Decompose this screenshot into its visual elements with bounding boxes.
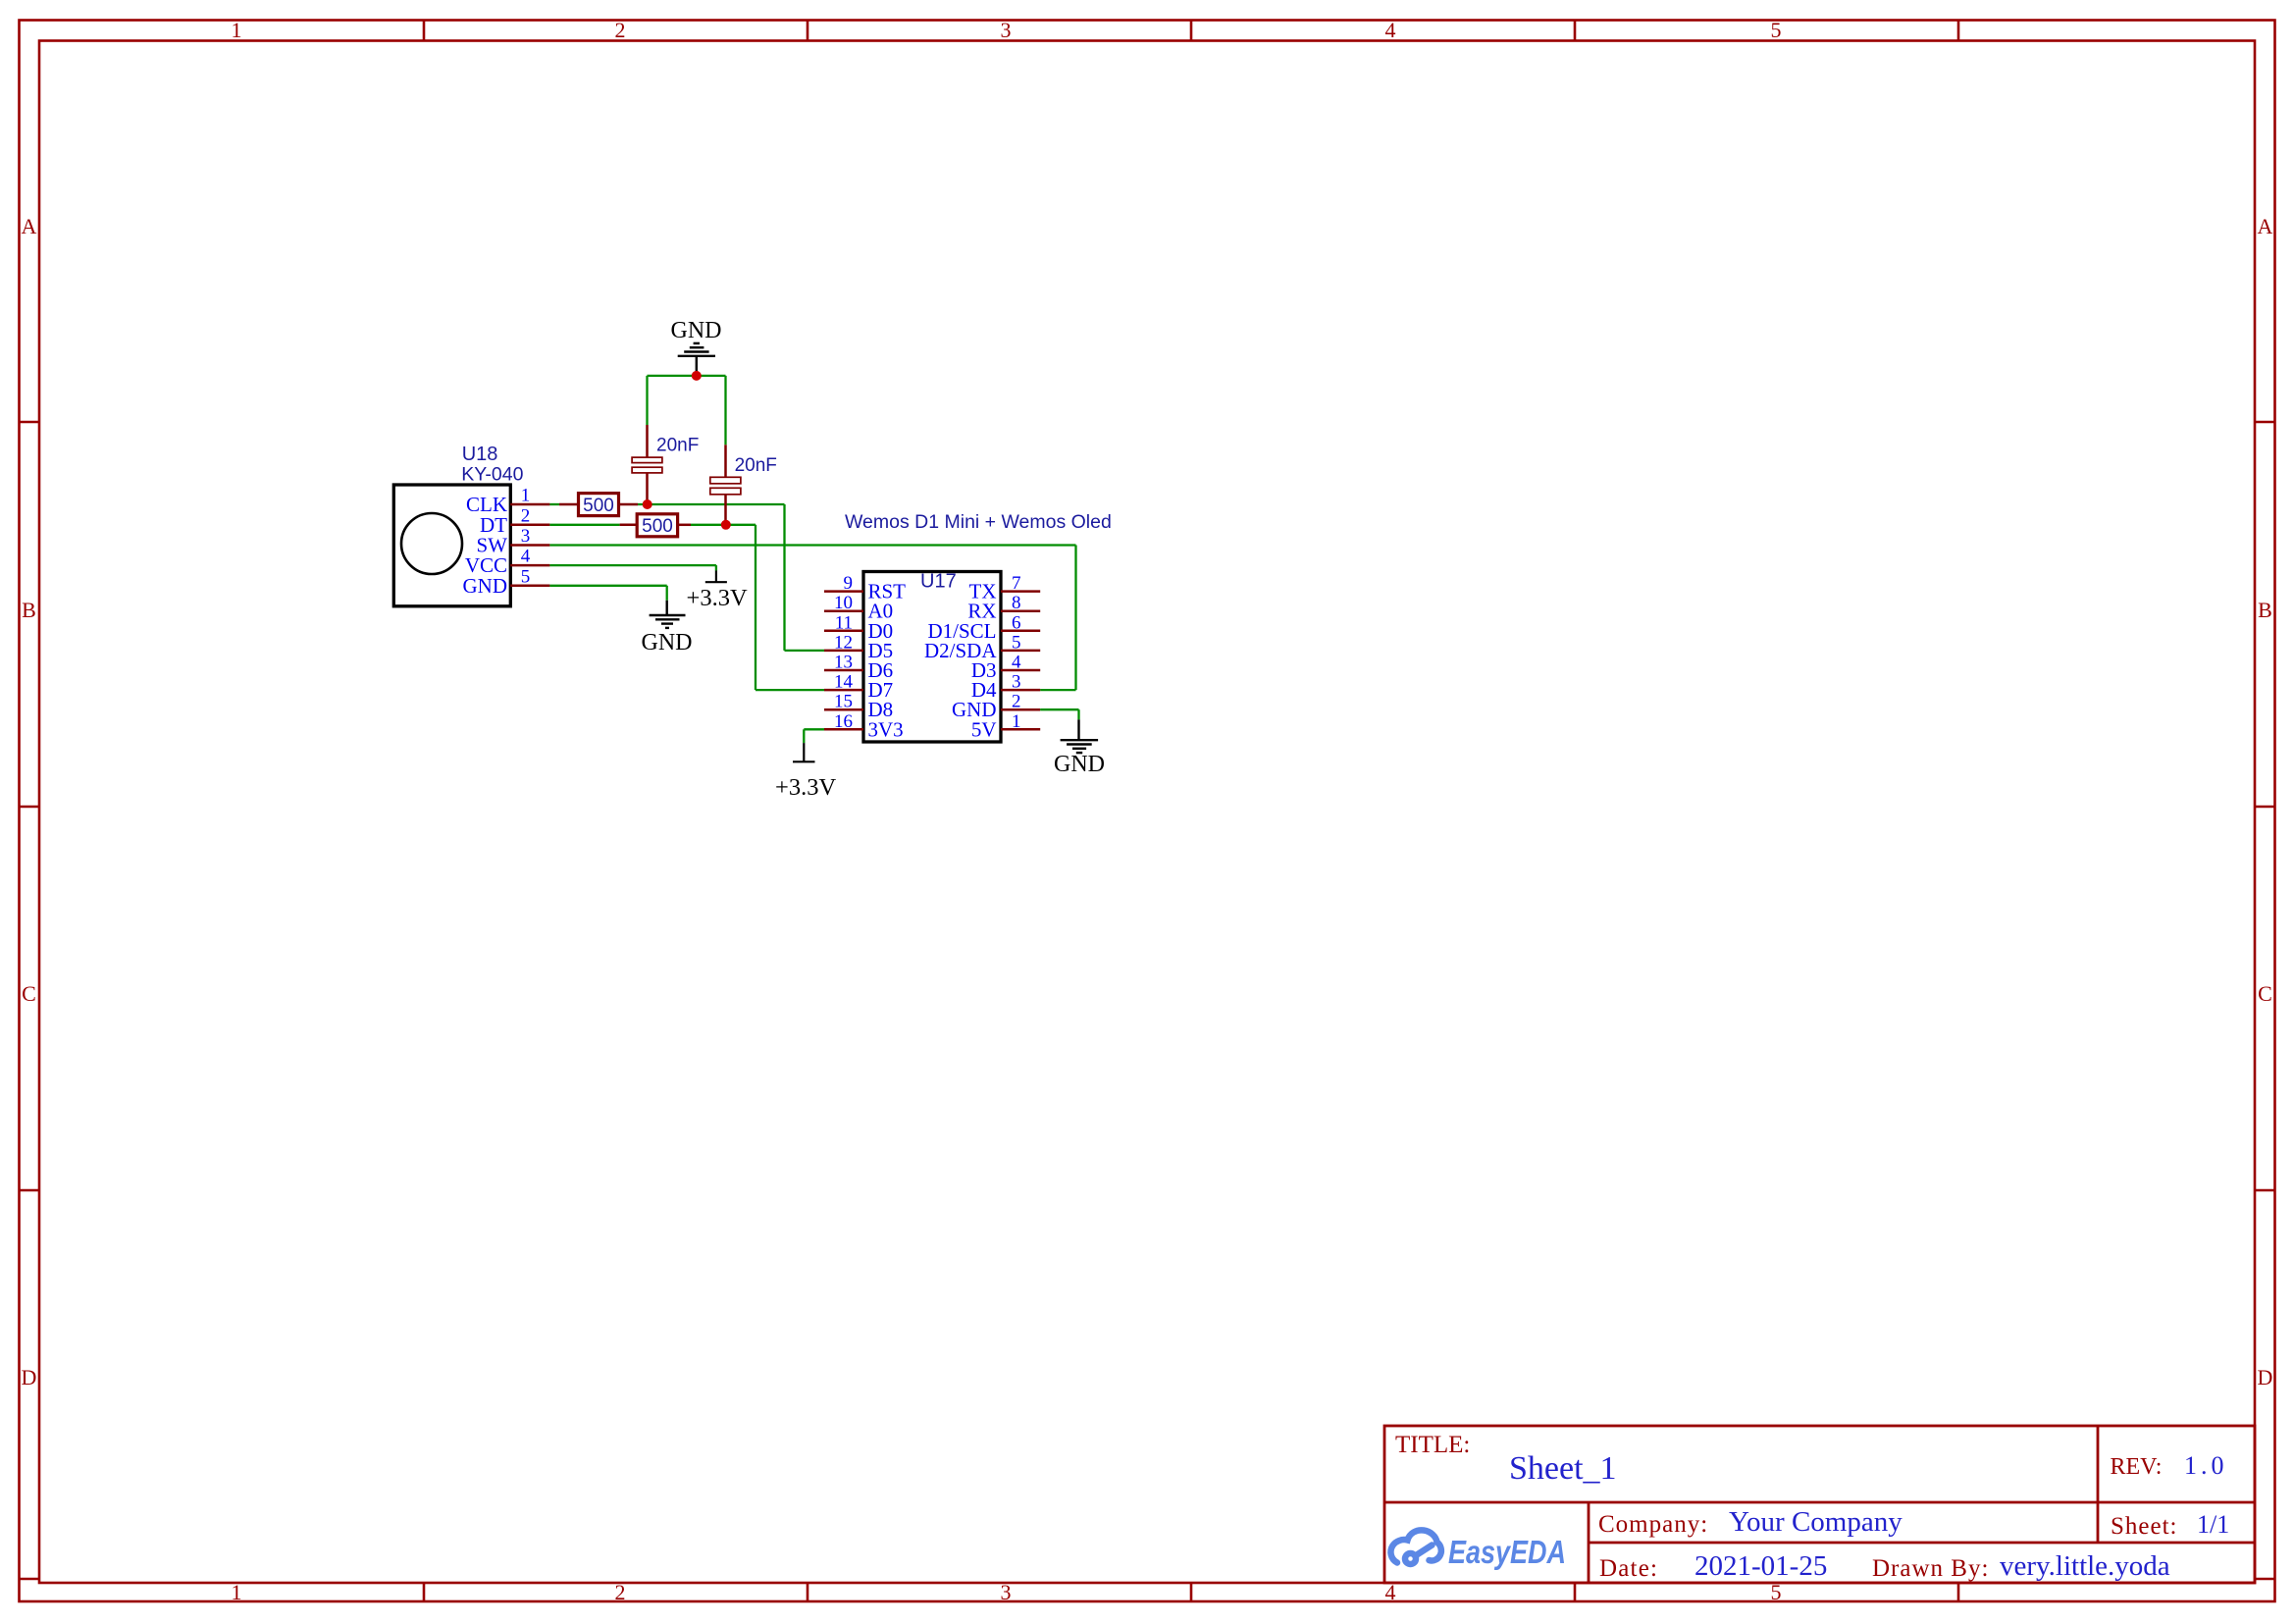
- svg-text:U17: U17: [920, 571, 957, 593]
- capacitor C2 bottom plate: [710, 488, 741, 495]
- svg-text:2: 2: [1012, 692, 1021, 712]
- svg-text:A: A: [22, 214, 37, 238]
- U17 right pin 8 line: [1001, 609, 1040, 612]
- frame row tick right 2: [2255, 806, 2275, 809]
- title block outline: [1384, 1426, 2255, 1583]
- U17 left pin 10 line: [824, 609, 863, 612]
- wire GND pin5 to ground: [549, 585, 666, 587]
- svg-text:Company:: Company:: [1598, 1511, 1708, 1538]
- svg-text:C: C: [2258, 981, 2272, 1006]
- U17 left pin 14 line: [824, 689, 863, 692]
- svg-text:GND: GND: [463, 574, 508, 598]
- wire SW net vertical down to D4: [1074, 546, 1076, 691]
- resistor R2 left lead: [620, 524, 638, 527]
- svg-text:Wemos D1 Mini + Wemos Oled: Wemos D1 Mini + Wemos Oled: [845, 511, 1112, 533]
- U18 pin 1 line: [510, 503, 549, 506]
- svg-text:B: B: [2258, 598, 2272, 622]
- wire U17 GND pin2 to ground: [1040, 708, 1078, 710]
- svg-text:+3.3V: +3.3V: [775, 774, 836, 801]
- svg-text:GND: GND: [642, 630, 693, 655]
- capacitor C1 bottom plate: [632, 467, 662, 473]
- wire CLK pin1 to R1: [549, 503, 559, 505]
- frame row tick right 1: [2255, 421, 2275, 424]
- U17 left pin 15 line: [824, 708, 863, 711]
- U18 pin 5 line: [510, 585, 549, 588]
- resistor R1 left lead: [559, 503, 579, 506]
- frame row tick right 3: [2255, 1189, 2275, 1192]
- svg-text:KY-040: KY-040: [461, 464, 523, 486]
- U17 right pin 5 line: [1001, 650, 1040, 653]
- U18 pin 2 line: [510, 524, 549, 527]
- wire CLK net vertical down to D5: [783, 504, 785, 651]
- capacitor C1 top lead: [646, 425, 649, 457]
- svg-text:1: 1: [1012, 711, 1021, 732]
- U18 pin 3 line: [510, 544, 549, 547]
- U17 right pin 4 line: [1001, 669, 1040, 672]
- svg-text:13: 13: [834, 653, 853, 673]
- svg-text:very.little.yoda: very.little.yoda: [2000, 1550, 2170, 1582]
- svg-text:A: A: [2258, 214, 2273, 238]
- resistor R2 body (500): [637, 514, 677, 537]
- wire top GND net horizontal: [648, 375, 726, 377]
- title block divider row1: [1384, 1501, 2255, 1504]
- svg-text:11: 11: [835, 612, 853, 633]
- svg-text:3: 3: [1012, 672, 1021, 693]
- svg-text:1: 1: [232, 18, 242, 42]
- U17 right pin 7 line: [1001, 590, 1040, 593]
- svg-text:B: B: [22, 598, 36, 622]
- junction top GND tee: [692, 371, 702, 381]
- svg-text:3V3: 3V3: [868, 717, 904, 741]
- svg-text:12: 12: [834, 632, 853, 653]
- resistor R1 right lead: [619, 503, 639, 506]
- frame column tick bottom 5: [1957, 1583, 1960, 1601]
- U18 pin 4 line: [510, 564, 549, 567]
- U17 left pin 16 line: [824, 728, 863, 731]
- U17 left pin 11 line: [824, 630, 863, 633]
- svg-text:3: 3: [1001, 1580, 1012, 1604]
- ground symbol (U17 GND): [1061, 719, 1099, 753]
- svg-text:5V: 5V: [971, 717, 997, 741]
- wire DT net to U17 pin14 D7: [756, 689, 824, 691]
- svg-text:GND: GND: [1054, 752, 1105, 777]
- frame row tick left 3: [20, 1189, 40, 1192]
- resistor R1 body (500): [579, 494, 619, 516]
- +3.3V power symbol (U17 3V3): [793, 743, 815, 761]
- svg-text:D: D: [22, 1365, 37, 1389]
- frame column tick top 4: [1574, 21, 1577, 41]
- junction C2 on DT net: [721, 520, 731, 530]
- U17 left pin 9 line: [824, 590, 863, 593]
- svg-text:REV:: REV:: [2111, 1454, 2163, 1480]
- wire GND drop (U17): [1077, 709, 1079, 719]
- frame column tick bottom 1: [423, 1583, 426, 1601]
- frame row tick right 4: [2255, 1578, 2275, 1581]
- svg-text:3: 3: [1001, 18, 1012, 42]
- svg-text:EasyEDA: EasyEDA: [1448, 1534, 1566, 1570]
- U18 knob circle: [401, 513, 462, 574]
- junction C1 on CLK net: [643, 499, 652, 509]
- svg-text:4: 4: [1012, 653, 1021, 673]
- wire CLK net to D5 corner: [638, 503, 785, 505]
- svg-text:5: 5: [1012, 632, 1021, 653]
- wire DT net to D7 corner: [691, 524, 756, 526]
- wire SW net to U17 pin3 D4: [1040, 689, 1075, 691]
- capacitor C2 top plate: [710, 477, 741, 484]
- svg-text:Sheet:: Sheet:: [2111, 1513, 2178, 1540]
- svg-text:Drawn By:: Drawn By:: [1872, 1555, 1989, 1582]
- svg-text:4: 4: [521, 547, 531, 567]
- IC U17 Wemos D1 Mini body: [863, 572, 1001, 743]
- svg-text:+3.3V: +3.3V: [687, 585, 748, 611]
- U17 left pin 13 line: [824, 669, 863, 672]
- capacitor C2 top lead: [724, 445, 727, 477]
- svg-text:1/1: 1/1: [2197, 1510, 2229, 1539]
- wire CLK net to U17 pin12 D5: [785, 650, 825, 652]
- svg-text:Sheet_1: Sheet_1: [1509, 1450, 1617, 1487]
- capacitor C1 top plate: [632, 457, 662, 463]
- svg-text:D: D: [2258, 1365, 2273, 1389]
- wire GND drop to ground symbol: [666, 586, 668, 601]
- wire down to C1: [646, 376, 648, 425]
- frame column tick bottom 4: [1574, 1583, 1577, 1601]
- svg-text:5: 5: [521, 566, 531, 587]
- wire VCC pin4 to +3.3V: [549, 564, 716, 566]
- svg-text:GND: GND: [671, 318, 722, 343]
- U17 right pin 1 line: [1001, 728, 1040, 731]
- svg-text:2021-01-25: 2021-01-25: [1694, 1550, 1827, 1582]
- capacitor C1 bottom lead: [646, 473, 649, 504]
- svg-text:Date:: Date:: [1599, 1555, 1658, 1582]
- svg-text:2: 2: [521, 505, 531, 526]
- svg-text:3: 3: [521, 526, 531, 547]
- rotary encoder U18 KY-040 body: [393, 485, 510, 606]
- svg-text:20nF: 20nF: [735, 455, 777, 476]
- title block divider logo cell: [1588, 1502, 1590, 1583]
- U17 left pin 12 line: [824, 650, 863, 653]
- svg-text:20nF: 20nF: [656, 436, 699, 456]
- svg-text:10: 10: [834, 593, 853, 613]
- frame column tick top 5: [1957, 21, 1960, 41]
- svg-text:14: 14: [834, 672, 854, 693]
- svg-text:9: 9: [844, 573, 854, 594]
- U17 right pin 2 line: [1001, 708, 1040, 711]
- svg-text:16: 16: [834, 711, 853, 732]
- U17 right pin 3 line: [1001, 689, 1040, 692]
- frame row tick left 1: [20, 421, 40, 424]
- capacitor C2 bottom lead: [724, 495, 727, 525]
- frame column tick top 2: [807, 21, 809, 41]
- wire DT pin2 to R2: [549, 524, 619, 526]
- svg-text:500: 500: [642, 516, 673, 537]
- wire DT net vertical down to D7: [755, 525, 756, 690]
- svg-text:500: 500: [583, 496, 614, 516]
- ground symbol (top GND, flipped): [678, 343, 715, 376]
- frame column tick top 3: [1190, 21, 1193, 41]
- svg-text:TITLE:: TITLE:: [1395, 1432, 1470, 1458]
- title block divider REV column: [2097, 1426, 2100, 1543]
- wire SW pin3 long run to D4: [549, 544, 1075, 546]
- svg-text:5: 5: [1771, 18, 1782, 42]
- svg-text:2: 2: [615, 18, 626, 42]
- ground symbol (KY-040 GND): [650, 601, 686, 628]
- U17 right pin 6 line: [1001, 630, 1040, 633]
- frame column tick bottom 2: [807, 1583, 809, 1601]
- svg-text:1: 1: [232, 1580, 242, 1604]
- wire U17 3V3 pin16 to +3.3V: [804, 728, 824, 730]
- svg-text:8: 8: [1012, 593, 1021, 613]
- wire down to C2: [724, 376, 726, 445]
- wire 3V3 drop to +3.3V symbol: [803, 729, 805, 743]
- svg-text:1.0: 1.0: [2184, 1451, 2228, 1480]
- svg-text:2: 2: [615, 1580, 626, 1604]
- resistor R2 right lead: [678, 524, 691, 527]
- EasyEDA logo cloud: [1390, 1530, 1440, 1564]
- svg-text:C: C: [22, 981, 36, 1006]
- frame column tick top 1: [423, 21, 426, 41]
- svg-text:6: 6: [1012, 612, 1021, 633]
- svg-text:U18: U18: [462, 444, 498, 465]
- svg-text:Your Company: Your Company: [1729, 1506, 1903, 1538]
- +3.3V power symbol (KY-040 VCC): [705, 571, 727, 583]
- frame row tick left 2: [20, 806, 40, 809]
- title block divider row2: [1589, 1542, 2255, 1545]
- frame column tick bottom 3: [1190, 1583, 1193, 1601]
- svg-text:1: 1: [521, 486, 531, 506]
- wire VCC drop to +3.3V symbol: [715, 565, 717, 570]
- frame row tick left 4: [20, 1578, 40, 1581]
- svg-text:15: 15: [834, 692, 853, 712]
- svg-text:4: 4: [1385, 18, 1396, 42]
- svg-text:7: 7: [1012, 573, 1021, 594]
